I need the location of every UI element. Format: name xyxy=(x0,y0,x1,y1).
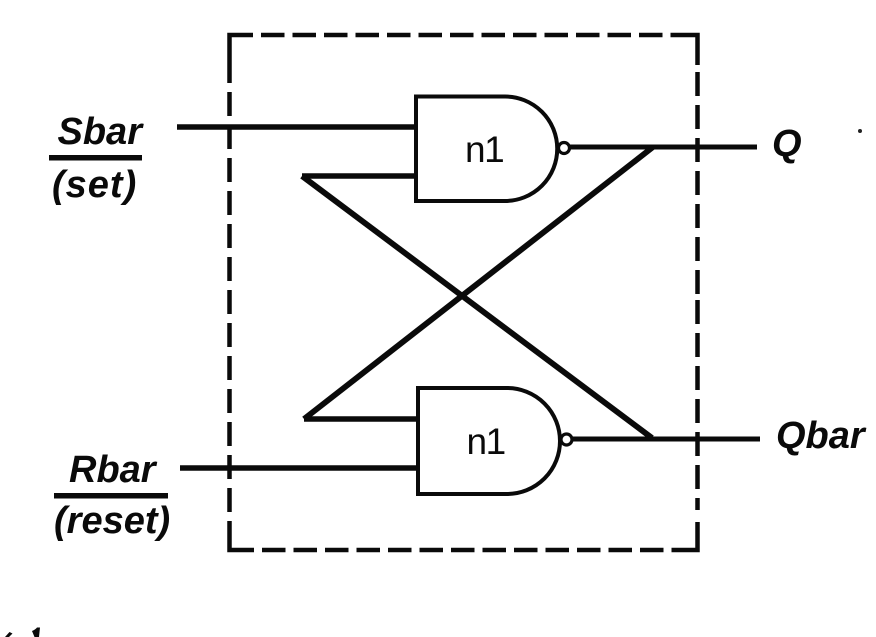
box corner bottom-right xyxy=(675,522,698,550)
wire Rbar input xyxy=(180,465,420,471)
box right edge dashes lower xyxy=(695,300,700,510)
box corner top-left xyxy=(230,35,254,62)
wire Qbar output xyxy=(572,437,760,442)
wire Sbar input xyxy=(177,124,418,130)
dashed enclosure box xyxy=(230,35,698,550)
NAND gate U1 inversion bubble xyxy=(559,143,570,154)
svg-text:Rbar: Rbar xyxy=(69,449,158,491)
svg-text:n1: n1 xyxy=(465,129,503,170)
cut-off caption glyph 2 (bottom edge) xyxy=(32,628,40,637)
NAND gate U2 inversion bubble xyxy=(561,434,572,445)
svg-text:(set): (set) xyxy=(52,164,137,206)
box corner bottom-left xyxy=(230,525,255,550)
wire cross stub to top gate lower input xyxy=(302,173,418,179)
cut-off caption glyph 1 (bottom edge) xyxy=(5,632,13,637)
wire cross stub to bottom gate upper input xyxy=(304,416,420,422)
box right edge dashes upper xyxy=(695,65,700,300)
svg-text:n1: n1 xyxy=(467,421,505,462)
svg-text:(reset): (reset) xyxy=(54,500,170,542)
stray speck near Q xyxy=(858,129,862,133)
NAND gate U1 body (top, n1) xyxy=(416,97,557,202)
box left edge dashes xyxy=(227,62,232,525)
wire Q output xyxy=(569,145,757,150)
wire feedback diagonal from node Qbar to top gate input xyxy=(302,176,652,438)
svg-text:Q: Q xyxy=(772,123,802,165)
label fraction bar (set) xyxy=(49,155,142,161)
box bottom edge dashes xyxy=(254,548,675,553)
wire feedback diagonal from node Q to bottom gate input xyxy=(304,147,653,419)
box corner top-right xyxy=(675,35,698,65)
NAND gate U2 body (bottom, n1) xyxy=(418,388,560,494)
label fraction bar (reset) xyxy=(54,493,168,499)
svg-text:Qbar: Qbar xyxy=(776,415,867,457)
box top edge dashes xyxy=(253,33,675,38)
svg-text:Sbar: Sbar xyxy=(58,111,145,153)
